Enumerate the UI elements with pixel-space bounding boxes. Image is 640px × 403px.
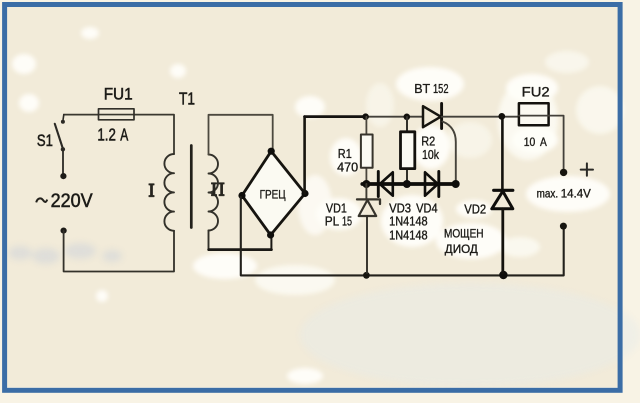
svg-text:470: 470 [337,160,358,175]
svg-text:BT: BT [414,81,430,96]
svg-text:FU2: FU2 [522,84,550,100]
svg-text:1.2: 1.2 [97,125,116,145]
svg-text:FU1: FU1 [104,84,133,103]
svg-text:A: A [540,137,547,149]
svg-text:max.: max. [537,186,559,200]
svg-text:ДИОД: ДИОД [445,242,478,256]
svg-text:МОЩЕН: МОЩЕН [444,227,484,241]
svg-text:10k: 10k [422,147,439,162]
svg-text:14.4V: 14.4V [561,186,592,200]
svg-text:1N4148: 1N4148 [389,215,428,229]
svg-text:1N4148: 1N4148 [389,229,428,243]
svg-text:220V: 220V [51,190,94,212]
svg-text:152: 152 [433,81,449,96]
svg-text:S1: S1 [37,131,53,150]
svg-text:VD1: VD1 [326,202,347,216]
svg-text:VD3: VD3 [389,202,411,216]
svg-text:15: 15 [342,215,352,229]
svg-text:A: A [120,125,128,145]
svg-text:VD4: VD4 [416,202,438,216]
svg-text:PL: PL [325,215,340,229]
svg-text:10: 10 [524,137,536,149]
svg-text:ГРЕЦ: ГРЕЦ [260,188,286,202]
svg-text:T1: T1 [179,88,195,108]
svg-text:VD2: VD2 [464,203,486,217]
